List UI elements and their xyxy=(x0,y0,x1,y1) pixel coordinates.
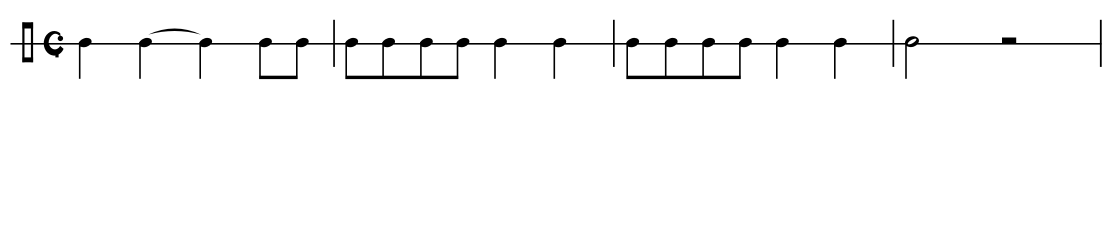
quarter note xyxy=(552,36,567,79)
quarter note 2 (tie start) xyxy=(138,36,153,79)
beam xyxy=(626,76,740,79)
barline 2 xyxy=(613,20,615,67)
quarter note xyxy=(833,36,848,79)
barline 1 xyxy=(333,20,335,67)
quarter note xyxy=(493,36,508,79)
beamed group of four eighths xyxy=(625,36,753,79)
half rest xyxy=(1002,38,1016,44)
staff line xyxy=(11,43,1102,45)
beamed group of four eighths xyxy=(344,36,471,79)
common time signature xyxy=(44,31,64,57)
quarter note xyxy=(775,36,790,79)
quarter note 3 (tie end) xyxy=(198,36,213,79)
barline 3 xyxy=(893,20,895,67)
final barline xyxy=(1100,20,1102,67)
half note xyxy=(904,34,921,78)
beam xyxy=(259,76,297,79)
beam xyxy=(345,76,458,79)
quarter note 1 xyxy=(78,36,93,79)
eighth note pair xyxy=(258,36,310,79)
percussion clef xyxy=(22,22,33,62)
tie between note 2 and note 3 xyxy=(148,29,201,35)
